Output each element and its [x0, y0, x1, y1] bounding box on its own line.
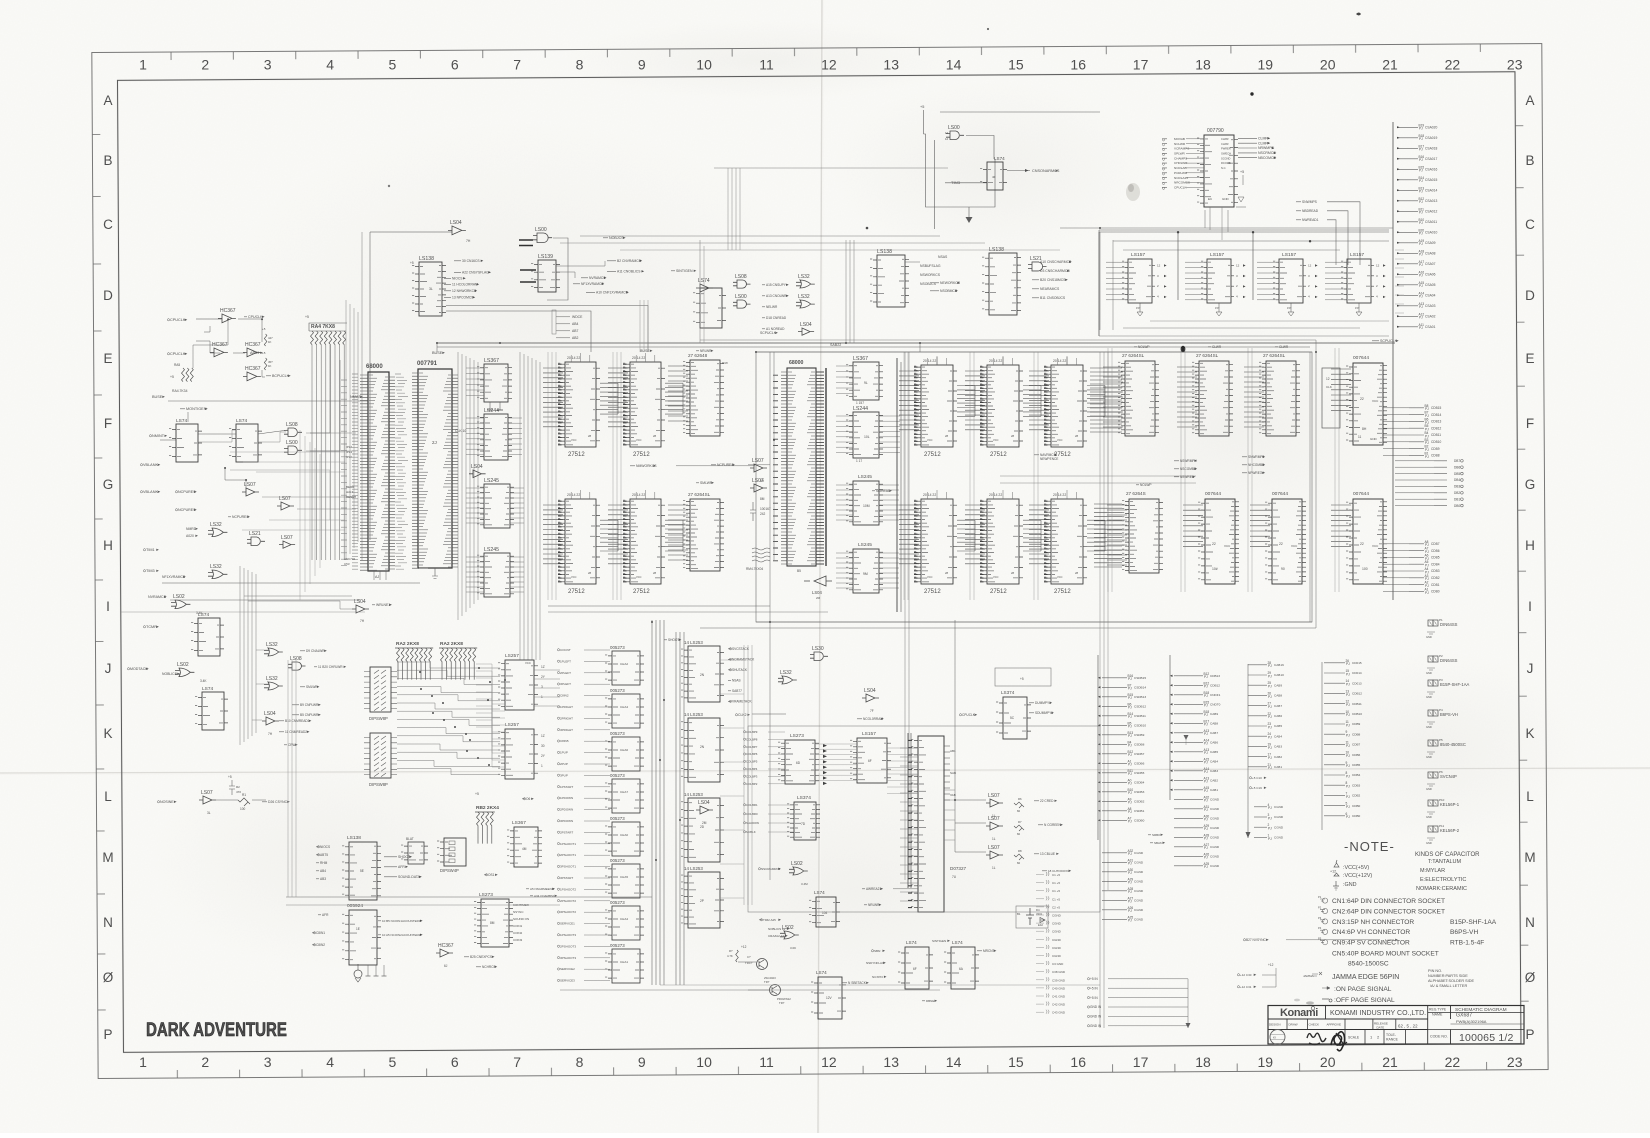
svg-text:1PSHOOT2: 1PSHOOT2: [560, 887, 576, 891]
svg-text:+12: +12: [741, 945, 747, 949]
svg-text:WRLNE1: WRLNE1: [376, 603, 390, 607]
label NOLWP: [1134, 345, 1149, 349]
LS157 routing lines top: [1099, 229, 1389, 231]
svg-text:PJ: PJ: [1346, 734, 1350, 738]
svg-text:1 157: 1 157: [856, 401, 864, 405]
LS157 routing verticals: [1098, 230, 1100, 336]
eprom 27512 B2: [980, 365, 1023, 447]
svg-text:CHAMPS: CHAMPS: [1174, 156, 1187, 160]
svg-text:+12: +12: [1268, 963, 1274, 967]
svg-text:CSA018: CSA018: [1425, 147, 1437, 151]
gate LS04 v: [696, 800, 713, 814]
svg-text:C38 GND: C38 GND: [1052, 970, 1066, 974]
svg-text:CGND: CGND: [1052, 938, 1062, 942]
svg-text:SDUMMPY1: SDUMMPY1: [1035, 711, 1053, 715]
svg-text:005273: 005273: [610, 773, 625, 778]
svg-text:PJ: PJ: [1128, 715, 1132, 719]
wire address stubs eprom B2: [965, 371, 985, 430]
svg-text:COCNT: COCNT: [560, 648, 571, 652]
LS138 output labels: [454, 259, 483, 263]
svg-text:DB0: DB0: [1454, 504, 1460, 508]
svg-text:PJ: PJ: [1128, 919, 1132, 923]
svg-text:PJ: PJ: [1128, 820, 1132, 824]
svg-text:14 LS253: 14 LS253: [684, 792, 703, 797]
svg-text:TIM2 A25: TIM2 A25: [763, 918, 776, 922]
label BCPUCLK: [266, 374, 291, 378]
svg-text:NRLWR: NRLWR: [868, 903, 880, 907]
svg-text:L: L: [104, 789, 112, 804]
svg-text:CGND: CGND: [1134, 851, 1144, 855]
svg-text:27512: 27512: [924, 452, 941, 458]
svg-text:R7: R7: [1018, 820, 1022, 824]
svg-text:P3: P3: [1318, 916, 1322, 920]
resistor R447 1K: [264, 334, 267, 370]
top mid gate LS04 a: [448, 220, 466, 235]
wire LS00 down verticals: [699, 240, 701, 343]
junction dots clock: [224, 318, 263, 481]
svg-text:23: 23: [1507, 1054, 1523, 1070]
labels NSWRMPX NSCGMBD NSWREN: [1174, 459, 1198, 463]
connector icon 8540-4500SC: [1426, 738, 1466, 759]
CA column bus: [1247, 664, 1249, 838]
svg-text:CHA7: CHA7: [620, 790, 628, 794]
svg-text:PJ: PJ: [1128, 791, 1132, 795]
ic 007791: [418, 369, 452, 568]
label NCPURES mid: [711, 463, 735, 467]
svg-text:PJ: PJ: [1204, 856, 1208, 860]
svg-text:007644: 007644: [1272, 491, 1288, 497]
svg-text:CGND: CGND: [1210, 855, 1220, 859]
svg-text:12V: 12V: [826, 996, 833, 1000]
svg-text:PJ: PJ: [1268, 664, 1272, 668]
svg-text:CGND: CGND: [1274, 825, 1284, 829]
svg-text:27512: 27512: [568, 589, 585, 595]
svg-text:CGND: CGND: [1134, 918, 1144, 922]
label MONTIGEN: [180, 407, 208, 411]
ic LS139 topmid: [531, 254, 560, 292]
svg-text:PJ: PJ: [1346, 795, 1350, 799]
svg-text:10#: 10#: [1212, 567, 1218, 571]
007791 gap pin texts: [395, 374, 408, 569]
wire horizontal y168: [714, 167, 948, 169]
gate LS08 vw: [288, 656, 306, 670]
svg-text:4F: 4F: [992, 175, 996, 179]
svg-text:CDB0: CDB0: [1352, 814, 1361, 818]
ic LS157 pal: [850, 738, 891, 783]
svg-text:28: 28: [653, 434, 657, 438]
connector icon DIN64SS 2: [1426, 654, 1458, 675]
svg-text:A1 NOREAD: A1 NOREAD: [766, 327, 785, 331]
svg-text:+12 C31: +12 C31: [1240, 985, 1252, 989]
svg-text:PJ: PJ: [1128, 909, 1132, 913]
svg-text:NCLWR: NCLWR: [1174, 142, 1186, 146]
svg-text:CGND: CGND: [1210, 836, 1220, 840]
label NCOLORRAM: [857, 717, 884, 721]
svg-text:N: N: [1525, 915, 1535, 930]
svg-text:CAB7: CAB7: [1274, 704, 1282, 708]
label NRLWR top: [696, 349, 713, 353]
svg-text:12: 12: [1326, 377, 1330, 381]
svg-text:CSDB3: CSDB3: [1134, 790, 1145, 794]
note vcc legend: [1334, 860, 1339, 867]
coin counter coil symbol: [354, 970, 362, 978]
svg-text:9L: 9L: [864, 381, 868, 385]
svg-text:MRCNT: MRCNT: [983, 949, 995, 953]
svg-text:SCPUCLK: SCPUCLK: [1380, 339, 1398, 343]
svg-text:1: 1: [139, 1054, 147, 1070]
svg-text:PJ: PJ: [1128, 706, 1132, 710]
svg-text:AB2: AB2: [572, 336, 579, 340]
svg-text:D3 CNSCHARMCS: D3 CNSCHARMCS: [1040, 269, 1070, 273]
svg-text:PJ: PJ: [1204, 818, 1208, 822]
svg-text:CSA03: CSA03: [1425, 304, 1436, 308]
stain smudge top right: [1126, 183, 1140, 201]
gate LS02 i1: [171, 594, 190, 609]
svg-text:CAB4: CAB4: [1274, 734, 1282, 738]
svg-text:NEWPENCE: NEWPENCE: [1040, 457, 1058, 461]
routing box dummy: [995, 668, 1051, 686]
svg-text:5: 5: [389, 1054, 397, 1070]
svg-text:17: 17: [1133, 1054, 1149, 1070]
connector icon DIN64SS 1: [1426, 618, 1458, 639]
wire address stubs eprom B1: [899, 371, 919, 430]
svg-text:LS374: LS374: [797, 795, 811, 801]
svg-text:PJ: PJ: [1419, 326, 1423, 330]
label BUSE left: [152, 395, 165, 399]
svg-text:LS74: LS74: [176, 418, 188, 424]
LS139 output labels: [607, 259, 642, 263]
CSDB label column: [1102, 674, 1146, 824]
gate LS07 blue: [986, 845, 1003, 859]
svg-text:CGND: CGND: [1134, 899, 1144, 903]
svg-text:DIN64SS: DIN64SS: [1440, 622, 1458, 627]
dip switch DIPSW8P 1: [370, 667, 391, 712]
svg-text:CDB9: CDB9: [1352, 722, 1361, 726]
svg-text:AJ: AJ: [375, 575, 379, 579]
svg-text:RA4 7KX8: RA4 7KX8: [311, 324, 335, 330]
svg-text:10M: 10M: [863, 504, 870, 508]
svg-text:005273: 005273: [610, 943, 625, 948]
wire NE555 region verticals: [727, 168, 729, 250]
wire left column bus: [299, 430, 301, 600]
label CSYNC out: [262, 800, 290, 804]
svg-text:12: 12: [1157, 263, 1161, 267]
svg-text:SINTIGEN: SINTIGEN: [932, 939, 946, 943]
svg-text:3PUP: 3PUP: [560, 773, 568, 777]
svg-text:LS74: LS74: [994, 156, 1005, 161]
svg-text:BCPUCLK: BCPUCLK: [272, 374, 290, 378]
svg-text:A: A: [1525, 93, 1534, 108]
svg-text:H: H: [103, 538, 113, 553]
svg-text:157: 157: [1215, 306, 1220, 310]
svg-text:LS157: LS157: [1350, 252, 1364, 258]
ic 007327: [911, 736, 944, 912]
svg-text:6: 6: [451, 1054, 459, 1070]
sram 6264SL r3: [1259, 361, 1300, 436]
svg-text:8H: 8H: [1362, 427, 1367, 431]
svg-text:VCC: VCC: [993, 575, 999, 579]
svg-text:CHA6: CHA6: [620, 748, 628, 752]
svg-text:LS138: LS138: [347, 835, 361, 841]
svg-text:4: 4: [326, 1054, 334, 1070]
svg-text:GND: GND: [1426, 787, 1432, 791]
svg-text:3: 3: [264, 57, 272, 73]
svg-text:PJ: PJ: [1419, 200, 1423, 204]
svg-text:C1 +5: C1 +5: [1052, 873, 1060, 877]
labels CNMREAD: [279, 719, 311, 723]
svg-text:PJ: PJ: [1128, 734, 1132, 738]
wire dense hatch left of 6264 row2: [1094, 504, 1122, 567]
wire top gates to LS138 horizontals: [580, 235, 940, 237]
svg-text:VCC: VCC: [927, 438, 933, 442]
svg-text:2D: 2D: [700, 825, 705, 829]
svg-text:62 , 5 , 22: 62 , 5 , 22: [1398, 1024, 1418, 1029]
on page signal legend: [1322, 987, 1330, 990]
svg-text::VCC(+12V): :VCC(+12V): [1343, 873, 1372, 879]
svg-text:CGND: CGND: [1134, 880, 1144, 884]
wire hline refresh: [162, 582, 420, 584]
svg-text:1PSHOOT1: 1PSHOOT1: [560, 842, 576, 846]
svg-text:B15P-SHF-1AA: B15P-SHF-1AA: [1440, 682, 1470, 687]
title block frame: [1268, 1006, 1524, 1045]
wire bottom of eprom A section: [548, 605, 770, 607]
label MODTACK: [127, 667, 148, 671]
svg-text:SNWRMP3: SNWRMP3: [1248, 455, 1265, 459]
svg-text:CDB14: CDB14: [1431, 413, 1442, 417]
svg-text:2PUP: 2PUP: [560, 762, 568, 766]
svg-text:TIM3: TIM3: [951, 180, 961, 185]
svg-text:1PRIGHT: 1PRIGHT: [560, 705, 573, 709]
svg-text:007790: 007790: [1207, 128, 1224, 134]
svg-text:8M: 8M: [490, 921, 495, 925]
svg-text:DUMMPY1: DUMMPY1: [1035, 701, 1051, 705]
svg-text:CDB13: CDB13: [1431, 420, 1442, 424]
svg-text:PJ: PJ: [1419, 221, 1423, 225]
svg-text:2J: 2J: [432, 440, 437, 445]
label BUSE topmid: [640, 349, 653, 353]
gate LS32 vw2: [264, 676, 283, 690]
svg-text:Ø: Ø: [1525, 970, 1536, 985]
wire bottom center verticals x744: [743, 645, 745, 905]
svg-text:PJ: PJ: [1419, 211, 1423, 215]
svg-text:27512: 27512: [924, 589, 941, 595]
svg-text:ALPHABET:SOLDER SIDE: ALPHABET:SOLDER SIDE: [1428, 979, 1474, 983]
svg-text:NSCRMCS: NSCRMCS: [1258, 151, 1276, 155]
svg-text:RA2 2KX8: RA2 2KX8: [440, 641, 463, 647]
svg-text::GND: :GND: [1343, 882, 1357, 888]
svg-text:1L: 1L: [992, 866, 996, 870]
+5 IN GND IN rows: [1087, 977, 1098, 981]
wire address stubs eprom A1: [543, 368, 563, 427]
svg-text:+12: +12: [1330, 870, 1336, 874]
svg-text:NGREAD: NGREAD: [876, 489, 891, 493]
svg-text:3L: 3L: [207, 811, 211, 815]
svg-text:1L: 1L: [992, 837, 996, 841]
sram 6264S r4: [1122, 499, 1163, 573]
svg-text:+5 IN: +5 IN: [1090, 986, 1098, 990]
svg-text:C?: C?: [747, 955, 751, 959]
wire address stubs eprom A2: [608, 368, 628, 427]
wire 007790 down feeds: [1209, 207, 1211, 230]
svg-text:CAB1: CAB1: [1274, 765, 1282, 769]
CA +5 rows: [1249, 776, 1266, 780]
gate LS32 h1: [208, 522, 227, 537]
svg-text:2PSHOOT3: 2PSHOOT3: [560, 944, 576, 948]
label NSYMBO: [464, 955, 495, 959]
svg-text:CSA013: CSA013: [1425, 199, 1437, 203]
svg-text:LS00: LS00: [286, 440, 298, 446]
svg-text:GND: GND: [1426, 815, 1432, 819]
gate LS07 c1: [750, 458, 767, 472]
svg-text:005273: 005273: [610, 900, 625, 905]
svg-text:28: 28: [945, 571, 949, 575]
svg-text:28: 28: [945, 434, 949, 438]
svg-text:27512: 27512: [633, 589, 650, 595]
svg-text:27512: 27512: [1054, 589, 1071, 595]
svg-text:LS04: LS04: [264, 711, 276, 717]
svg-text:CNDF1: CNDF1: [1210, 693, 1221, 697]
svg-text:CDB10: CDB10: [1431, 440, 1442, 444]
svg-text:23: 23: [1507, 57, 1523, 73]
svg-text:LS32: LS32: [266, 676, 278, 682]
sram 62648: [683, 360, 724, 436]
svg-text:PJ: PJ: [1204, 742, 1208, 746]
svg-text:PJ: PJ: [1128, 852, 1132, 856]
svg-text::OFF PAGE SIGNAL: :OFF PAGE SIGNAL: [1334, 997, 1395, 1004]
wire hline above LS157: [940, 111, 1100, 113]
svg-text:E42: E42: [1038, 923, 1043, 927]
svg-text:CLWR: CLWR: [1221, 137, 1229, 141]
note CN list: [1320, 898, 1328, 903]
svg-text:LS273: LS273: [790, 733, 804, 739]
svg-text:1PSTART: 1PSTART: [560, 785, 573, 789]
label CLWR a: [1208, 345, 1222, 349]
svg-text:N CGREEN: N CGREEN: [1044, 823, 1062, 827]
svg-text:G: G: [1525, 477, 1536, 492]
svg-text:C8IN2: C8IN2: [560, 694, 569, 698]
label SINTIGEN topmid: [671, 269, 696, 273]
svg-text:P5: P5: [1318, 937, 1322, 941]
svg-text:2PDOWN: 2PDOWN: [560, 808, 573, 812]
LS139 wires right: [556, 261, 605, 266]
ic LS74 j: [195, 686, 228, 730]
labels NSGMEEND CDAMBS: [526, 887, 555, 891]
wire bus verticals right eproms: [903, 352, 905, 600]
svg-text:NSOBMCS: NSOBMCS: [940, 289, 958, 293]
svg-text:22: 22: [1212, 542, 1216, 546]
svg-text:CD013: CD013: [1352, 681, 1362, 685]
svg-text:JAMMA EDGE 56PIN: JAMMA EDGE 56PIN: [1332, 974, 1399, 981]
gate LS21 h: [247, 531, 265, 546]
svg-text:28: 28: [1075, 571, 1079, 575]
svg-text:CSA019: CSA019: [1425, 136, 1437, 140]
svg-text:SB6r: SB6r: [874, 949, 881, 953]
gate HC367 a: [218, 308, 236, 323]
svg-text:15: 15: [1008, 1054, 1024, 1070]
svg-text:NWREAD1: NWREAD1: [1302, 218, 1319, 222]
svg-text:LS157: LS157: [862, 731, 876, 737]
svg-text:PJ: PJ: [1419, 305, 1423, 309]
svg-text:242: 242: [760, 512, 766, 516]
resistor RM4 7KX04: [752, 548, 770, 562]
label SCPUCLK F: [760, 331, 778, 335]
svg-text::ON PAGE SIGNAL: :ON PAGE SIGNAL: [1334, 986, 1392, 993]
ic LS244 cpu: [477, 408, 512, 460]
svg-text:CSA020: CSA020: [1425, 126, 1437, 130]
signature 1: [1307, 1033, 1326, 1044]
ic LS157 1: [1122, 259, 1155, 303]
svg-text:B6PS-VH: B6PS-VH: [1450, 929, 1478, 936]
svg-text:PJ: PJ: [1204, 780, 1208, 784]
gate LS21 top: [1028, 256, 1047, 271]
svg-text:82: 82: [1017, 809, 1021, 813]
svg-text:RHM: RHM: [320, 861, 328, 865]
svg-text:C39 GND: C39 GND: [1052, 978, 1066, 982]
svg-text:PJ: PJ: [1204, 837, 1208, 841]
svg-text:1PSHOOT3: 1PSHOOT3: [560, 933, 576, 937]
ic LS157 2: [1201, 259, 1234, 303]
signature 2: [1331, 1032, 1345, 1051]
svg-text:AFR: AFR: [398, 865, 405, 869]
svg-text:2PSHOOT2: 2PSHOOT2: [560, 899, 576, 903]
gate LS32 stack: [778, 670, 797, 684]
svg-text:PIN NO.: PIN NO.: [1428, 969, 1442, 973]
svg-text:1Z: 1Z: [541, 734, 545, 738]
svg-text:DB6: DB6: [1454, 465, 1460, 469]
svg-text:CDB2: CDB2: [1352, 794, 1361, 798]
svg-text:OS1: OS1: [488, 873, 495, 877]
007327 right pins: [944, 745, 950, 747]
svg-text:CGND: CGND: [1052, 914, 1062, 918]
svg-text:11: 11: [759, 1054, 774, 1070]
svg-text:CSDB4: CSDB4: [1134, 781, 1145, 785]
svg-text:B2 CNVRAMCS: B2 CNVRAMCS: [617, 259, 642, 263]
svg-text:SCALE: SCALE: [1348, 1036, 1360, 1040]
transistor coin driver: [757, 959, 768, 970]
svg-text:3.4K: 3.4K: [200, 679, 207, 683]
svg-text:CLK2: CLK2: [738, 713, 747, 717]
svg-text:CSDB8: CSDB8: [1134, 743, 1145, 747]
svg-text:CAB2: CAB2: [1210, 779, 1218, 783]
svg-text:1PUP: 1PUP: [560, 751, 568, 755]
svg-text:3PSHOOT3: 3PSHOOT3: [560, 956, 576, 960]
68000 bottom gnd stubs: [373, 571, 375, 580]
svg-text:470: 470: [236, 790, 241, 794]
svg-text:PCRLWR: PCRLWR: [1174, 171, 1188, 175]
gate HC367 sound: [436, 943, 454, 957]
wire address stubs eprom B4: [899, 505, 919, 564]
svg-text:005273: 005273: [610, 816, 625, 821]
wire rgb bus: [955, 799, 986, 801]
CDB label column 2: [1409, 540, 1440, 595]
svg-text:12: 12: [1236, 263, 1240, 267]
svg-text:A15 CNSUPY: A15 CNSUPY: [766, 283, 787, 287]
007790 output labels bold: [1238, 137, 1270, 141]
svg-text:CDB12: CDB12: [1352, 692, 1362, 696]
svg-text:PJ: PJ: [1419, 284, 1423, 288]
wire dip to ls257 bundles: [476, 664, 505, 704]
007327 left bold wedges: [908, 740, 912, 907]
svg-text:VCC: VCC: [636, 575, 642, 579]
svg-text:PJ: PJ: [1128, 881, 1132, 885]
svg-text:PJ: PJ: [1268, 715, 1272, 719]
wire address stubs 6264 row2: [1107, 505, 1127, 565]
eprom 27512 B5: [980, 499, 1023, 584]
ic LS257 1: [498, 660, 538, 710]
label NGREAD: [872, 489, 892, 493]
svg-text:R/W: R/W: [722, 361, 728, 365]
label NCPURES c: [228, 515, 250, 519]
